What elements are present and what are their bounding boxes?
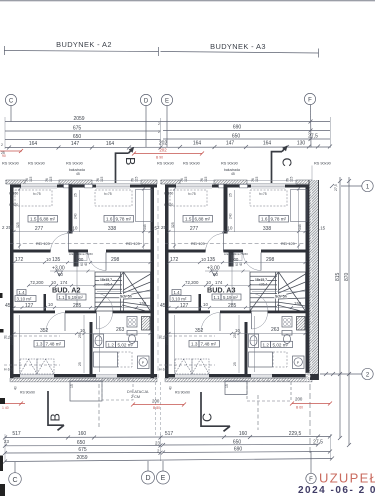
wardrobe X boxes xyxy=(20,359,54,374)
svg-text:200: 200 xyxy=(152,399,160,404)
svg-text:+3,00: +3,00 xyxy=(52,266,65,272)
H dashed lines room 1.3 xyxy=(4,335,60,337)
grid bubble E top xyxy=(161,94,172,147)
svg-text:szacht klima 75x50: szacht klima 75x50 xyxy=(69,252,93,256)
bottom wall window 2 xyxy=(96,374,117,378)
svg-text:27,5: 27,5 xyxy=(334,184,338,191)
svg-text:2059: 2059 xyxy=(73,116,84,122)
svg-text:C: C xyxy=(201,413,215,422)
duct shaft xyxy=(74,253,79,267)
grid bubble F bottom xyxy=(306,451,316,484)
room 1.2 label xyxy=(106,341,116,347)
svg-text:BUDYNEK - A3: BUDYNEK - A3 xyxy=(210,42,266,51)
svg-text:298: 298 xyxy=(111,257,120,263)
stairs xyxy=(95,272,151,311)
svg-text:72,200: 72,200 xyxy=(30,280,44,285)
svg-text:H-160: H-160 xyxy=(4,368,13,372)
svg-text:202: 202 xyxy=(159,141,168,147)
svg-text:23: 23 xyxy=(4,439,9,444)
svg-text:1.6: 1.6 xyxy=(106,217,113,222)
exterior landing A2 xyxy=(70,381,102,401)
svg-text:277: 277 xyxy=(35,226,44,232)
right side vertical dims xyxy=(339,177,341,438)
vent boxes on top wall xyxy=(64,184,72,188)
dylatacja center dashed line xyxy=(157,190,159,378)
svg-text:27,5: 27,5 xyxy=(308,134,318,140)
svg-text:RS 90x90: RS 90x90 xyxy=(314,162,331,166)
washer P xyxy=(138,356,150,369)
svg-text:RS 90x90: RS 90x90 xyxy=(20,391,35,395)
svg-text:200: 200 xyxy=(295,397,303,402)
unit A3 copy xyxy=(157,162,312,395)
bottom exterior wall xyxy=(10,374,157,378)
svg-text:15: 15 xyxy=(70,384,74,388)
wire title underline A2 xyxy=(4,51,159,52)
BUD label box 1.1 xyxy=(57,294,66,300)
wire title underline A3 xyxy=(161,52,319,54)
red dim top-left xyxy=(0,150,22,152)
grid bubble C bottom xyxy=(9,462,22,485)
svg-text:255: 255 xyxy=(78,332,82,338)
grid bubble C top xyxy=(5,94,16,121)
svg-text:164: 164 xyxy=(263,141,272,147)
svg-text:517: 517 xyxy=(12,431,21,437)
svg-text:229,5: 229,5 xyxy=(289,431,302,437)
dim line 80 under +3,00 xyxy=(50,270,95,272)
svg-text:870: 870 xyxy=(344,272,350,281)
svg-text:1.1: 1.1 xyxy=(59,295,66,300)
svg-text:25: 25 xyxy=(74,193,78,197)
exterior landing A3 xyxy=(225,381,247,395)
svg-text:9,78 m²: 9,78 m² xyxy=(116,217,132,222)
svg-text:240: 240 xyxy=(74,213,78,219)
svg-text:10: 10 xyxy=(51,280,56,285)
section marker C top xyxy=(272,148,286,183)
balcony rail lines xyxy=(5,179,157,181)
svg-text:164: 164 xyxy=(106,141,115,147)
svg-text:18x15,7: 18x15,7 xyxy=(100,278,112,282)
svg-text:25: 25 xyxy=(78,362,82,366)
svg-text:7,48 m²: 7,48 m² xyxy=(46,342,62,347)
stairs walk line xyxy=(97,291,150,293)
bathroom door arc xyxy=(97,313,113,329)
svg-text:x26,4: x26,4 xyxy=(104,283,112,287)
closet wall stub 1.4 xyxy=(44,294,47,311)
svg-text:135: 135 xyxy=(52,257,61,263)
svg-text:h=75: h=75 xyxy=(33,192,41,196)
dim terminus verticals xyxy=(4,117,6,149)
svg-text:E: E xyxy=(161,475,166,482)
svg-text:B 60: B 60 xyxy=(296,406,303,410)
svg-text:115: 115 xyxy=(49,176,53,182)
svg-text:285: 285 xyxy=(73,303,82,309)
svg-text:B: B xyxy=(49,413,63,421)
party wall right xyxy=(151,185,155,379)
wall between 1.5 and 1.6 xyxy=(69,185,73,234)
top wall window 1 xyxy=(21,184,57,188)
svg-text:BUDYNEK - A2: BUDYNEK - A2 xyxy=(56,40,112,49)
svg-text:RS 90x90: RS 90x90 xyxy=(28,162,45,166)
grid bubble F top xyxy=(304,93,315,147)
bathroom dividing wall xyxy=(90,322,93,374)
washbasin xyxy=(94,334,104,348)
svg-text:2: 2 xyxy=(1,143,3,147)
svg-text:263: 263 xyxy=(116,327,125,333)
svg-text:1.5: 1.5 xyxy=(30,217,37,222)
svg-text:C: C xyxy=(12,477,17,484)
svg-text:690: 690 xyxy=(233,125,242,131)
svg-text:3,10 m²: 3,10 m² xyxy=(17,297,32,302)
svg-text:1.4: 1.4 xyxy=(19,290,26,295)
svg-text:10: 10 xyxy=(48,302,53,307)
svg-text:2059: 2059 xyxy=(76,455,87,461)
svg-text:160: 160 xyxy=(78,431,87,437)
tick marks top row xyxy=(7,145,332,150)
svg-text:172: 172 xyxy=(15,257,24,263)
svg-text:80: 80 xyxy=(58,272,63,277)
svg-text:C: C xyxy=(9,98,14,104)
svg-text:H-320: H-320 xyxy=(9,203,18,207)
svg-text:130: 130 xyxy=(297,141,306,147)
window sill dashed boxes room 1.6 xyxy=(95,190,132,206)
svg-text:650: 650 xyxy=(73,134,82,140)
svg-text:158: 158 xyxy=(139,301,147,306)
dims row 283 line xyxy=(28,285,95,287)
edge scan marks xyxy=(0,293,3,298)
grid bubble E bottom xyxy=(157,461,170,484)
svg-text:115: 115 xyxy=(29,176,33,182)
svg-text:h=75: h=75 xyxy=(104,192,112,196)
shower box xyxy=(127,317,137,328)
WC xyxy=(127,331,137,336)
section marker B top xyxy=(116,149,133,183)
svg-text:40: 40 xyxy=(14,386,18,390)
svg-text:2: 2 xyxy=(158,130,160,134)
svg-text:D: D xyxy=(145,475,150,482)
room 1.6 label xyxy=(104,216,114,223)
svg-text:147: 147 xyxy=(71,141,80,147)
svg-text:RS 90x90: RS 90x90 xyxy=(66,162,83,166)
svg-text:Sch=5h: Sch=5h xyxy=(120,295,132,299)
balcony hatch segments xyxy=(59,180,92,184)
svg-text:RS 90x90: RS 90x90 xyxy=(2,162,19,166)
svg-text:164: 164 xyxy=(29,141,38,147)
svg-text:23: 23 xyxy=(155,441,160,446)
svg-text:UZUPEŁNIĆ: UZUPEŁNIĆ xyxy=(319,471,375,486)
svg-text:F: F xyxy=(309,477,313,483)
section marker B bottom xyxy=(48,391,64,430)
svg-text:2024 -06- 2 0: 2024 -06- 2 0 xyxy=(298,485,375,496)
counter xyxy=(94,352,118,367)
svg-text:147: 147 xyxy=(226,141,235,147)
svg-text:6,88 m²: 6,88 m² xyxy=(40,217,56,222)
bottom wall window 1 xyxy=(20,374,54,378)
svg-text:B 90: B 90 xyxy=(156,156,163,160)
svg-text:5,19 m²: 5,19 m² xyxy=(68,295,83,300)
door arc 1.5 xyxy=(51,234,69,252)
svg-text:675: 675 xyxy=(78,447,87,453)
svg-text:D: D xyxy=(144,98,149,104)
grid bubble D bottom xyxy=(142,461,155,484)
grid bubble D top xyxy=(140,94,151,147)
window sill dashed boxes room 1.5 xyxy=(15,190,52,206)
svg-text:338: 338 xyxy=(108,226,117,232)
svg-text:255: 255 xyxy=(10,339,14,345)
top exterior wall xyxy=(10,185,157,188)
svg-text:202: 202 xyxy=(159,148,167,153)
svg-text:160: 160 xyxy=(239,431,248,437)
svg-text:B 80: B 80 xyxy=(153,406,160,410)
A3 right exterior wall hatched xyxy=(309,180,319,380)
svg-text:E: E xyxy=(165,98,169,104)
svg-text:174: 174 xyxy=(60,280,68,285)
svg-text:650: 650 xyxy=(232,134,241,140)
svg-text:25: 25 xyxy=(10,225,14,229)
svg-text:1 40: 1 40 xyxy=(2,406,9,410)
mid wall segments xyxy=(10,250,51,253)
red dim bottom-left xyxy=(0,403,25,405)
exterior hatched band bottom xyxy=(10,378,157,382)
svg-text:45: 45 xyxy=(76,172,80,176)
wall hall/1.3 xyxy=(10,311,55,314)
svg-text:H-160: H-160 xyxy=(9,192,18,196)
door arc hall xyxy=(88,253,106,271)
svg-text:352: 352 xyxy=(40,328,49,334)
svg-text:815: 815 xyxy=(335,272,341,281)
interior dimension chain lines xyxy=(14,189,150,373)
svg-text:1.3: 1.3 xyxy=(36,342,43,347)
svg-text:650: 650 xyxy=(77,440,86,446)
svg-text:690: 690 xyxy=(234,447,243,453)
top wall window 2 xyxy=(96,184,130,188)
svg-text:REI 120: REI 120 xyxy=(36,242,50,246)
section marker C bottom xyxy=(201,392,230,431)
wardrobe room 1.6 xyxy=(136,190,153,222)
right axis bubble 1 xyxy=(341,185,362,187)
room 1.5 label xyxy=(28,216,38,223)
svg-text:B: B xyxy=(123,157,137,165)
door arc 1.3 xyxy=(46,313,65,332)
svg-text:F: F xyxy=(308,97,312,103)
scan top edge xyxy=(0,0,375,2)
svg-text:2: 2 xyxy=(158,122,160,126)
svg-text:H-220: H-220 xyxy=(4,336,13,340)
svg-text:10: 10 xyxy=(80,328,85,333)
REI dashed line xyxy=(10,243,151,245)
dylatacja gap dashed lines xyxy=(155,382,157,437)
room 1.3 label xyxy=(34,341,44,348)
svg-text:90: 90 xyxy=(2,154,6,158)
svg-text:164: 164 xyxy=(193,141,202,147)
svg-text:27,5: 27,5 xyxy=(306,373,310,380)
svg-text:REI 120: REI 120 xyxy=(126,242,140,246)
room 1.4 label xyxy=(17,290,26,296)
svg-text:10: 10 xyxy=(73,226,78,231)
svg-text:BUD. A2: BUD. A2 xyxy=(52,286,81,295)
svg-text:10: 10 xyxy=(46,257,51,262)
svg-text:,15: ,15 xyxy=(319,226,326,231)
svg-text:2 CM: 2 CM xyxy=(131,395,140,399)
svg-text:675: 675 xyxy=(73,126,82,132)
svg-text:115: 115 xyxy=(100,176,104,182)
svg-text:127: 127 xyxy=(25,303,34,309)
svg-text:45: 45 xyxy=(5,303,11,309)
svg-text:C: C xyxy=(280,158,294,167)
svg-text:1.2: 1.2 xyxy=(108,342,115,347)
svg-text:517: 517 xyxy=(165,431,174,437)
svg-text:115: 115 xyxy=(135,176,139,182)
svg-text:BUD. A3: BUD. A3 xyxy=(207,286,236,295)
left exterior wall xyxy=(10,185,14,379)
svg-text:DYLATACJA: DYLATACJA xyxy=(127,390,149,394)
right axis bubble 2 xyxy=(320,373,362,375)
